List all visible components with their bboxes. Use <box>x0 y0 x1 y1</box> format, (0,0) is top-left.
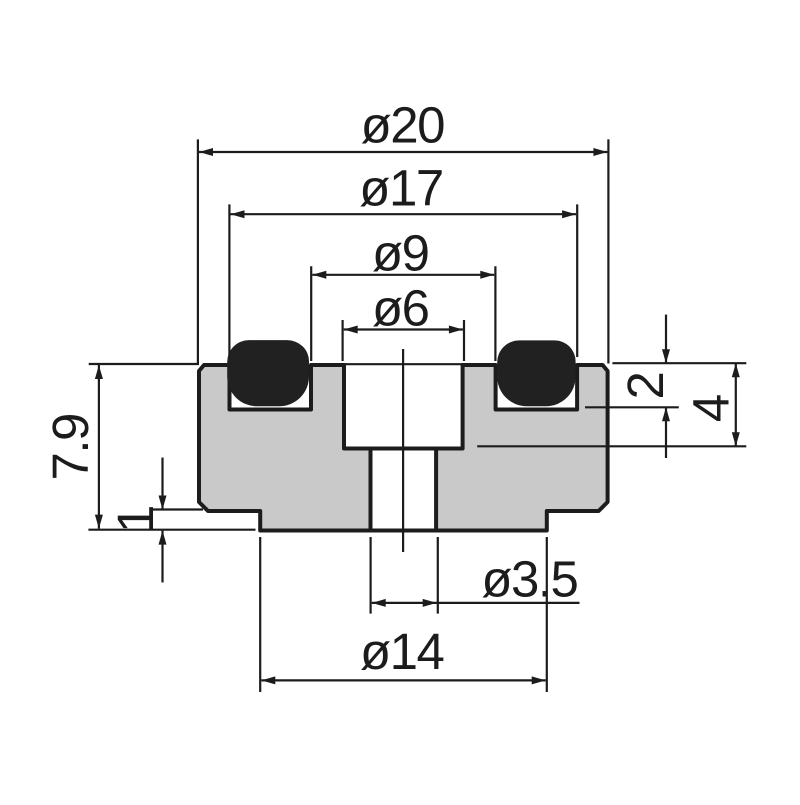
extension line dia3.5 left <box>370 537 372 614</box>
svg-text:ø9: ø9 <box>372 224 429 281</box>
extension line dia6 left <box>342 320 344 361</box>
extension line 4 (bore floor level) <box>477 445 746 447</box>
svg-text:7.9: 7.9 <box>42 414 99 480</box>
svg-text:ø6: ø6 <box>372 279 429 336</box>
extension line bottom (7.9 / 1) <box>88 529 255 531</box>
svg-text:ø3.5: ø3.5 <box>481 551 577 608</box>
o-ring left <box>227 340 309 406</box>
extension line dia9 left <box>310 266 312 361</box>
part cross-section right half <box>436 365 607 531</box>
svg-text:1: 1 <box>107 506 164 533</box>
top face edge across bore (thin) <box>344 363 463 365</box>
part cross-section left half <box>199 365 371 531</box>
dimension line dia6 <box>344 328 463 330</box>
svg-text:ø17: ø17 <box>359 160 442 217</box>
extension line dia17 right <box>576 204 578 357</box>
dimension 2 lower arrow <box>665 407 667 458</box>
extension line dia9 right <box>494 266 496 361</box>
extension line dia20 left <box>197 139 199 363</box>
extension line dia17 left <box>228 204 230 357</box>
extension line dia6 right <box>463 320 465 361</box>
extension line dia20 right <box>607 139 609 363</box>
svg-text:2: 2 <box>617 373 674 400</box>
dimension line dia9 <box>312 274 494 276</box>
svg-text:4: 4 <box>682 395 739 422</box>
dimension line dia20 <box>199 151 607 153</box>
svg-text:ø20: ø20 <box>361 97 445 154</box>
svg-text:ø14: ø14 <box>360 623 444 680</box>
dimension line 7.9 <box>98 365 100 529</box>
dimension 1 lower arrow <box>161 531 163 583</box>
o-ring right <box>497 340 575 406</box>
extension line 2 top (from part top edge, right side) <box>612 362 746 364</box>
extension line 2 (groove floor level) <box>585 406 679 408</box>
centerline <box>402 349 404 552</box>
extension line dia3.5 right <box>437 537 439 614</box>
bottom face edge across hole (thick) <box>260 529 547 533</box>
dimension 2 upper arrow <box>665 315 667 364</box>
extension line dia14 left <box>259 537 261 692</box>
dimension line dia17 <box>231 213 577 215</box>
dimension line dia3.5 <box>372 602 580 604</box>
dimension 1 upper arrow <box>161 458 163 510</box>
dimension line dia14 <box>261 679 545 681</box>
extension line step (1) <box>151 508 203 510</box>
bore floor edge across hole (thick) <box>344 447 463 451</box>
dimension line 4 <box>735 363 737 446</box>
extension line dia14 right <box>546 537 548 692</box>
extension line 7.9 top <box>89 363 199 365</box>
